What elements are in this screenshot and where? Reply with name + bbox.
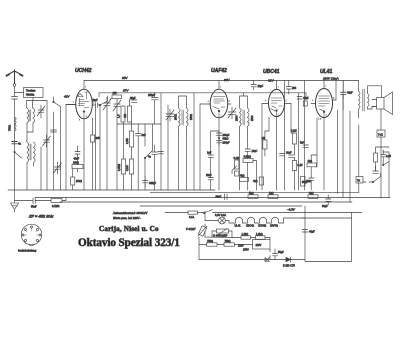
wire column x161	[160, 93, 162, 190]
wire	[27, 123, 33, 140]
svg-text:250Ω: 250Ω	[190, 114, 193, 120]
svg-text:150V: 150V	[243, 249, 249, 252]
pin digits UAF42	[208, 87, 231, 118]
pin digits UBC41	[265, 88, 288, 117]
wire column x107	[106, 112, 108, 190]
transistor Q1 tube UL41	[316, 89, 333, 118]
antenna	[6, 70, 23, 84]
wire	[380, 137, 382, 198]
switch TA a	[383, 162, 390, 166]
wire AVC line	[37, 198, 67, 201]
switch S1b	[99, 96, 107, 110]
svg-text:Werte gem. bei 220V~: Werte gem. bei 220V~	[113, 216, 141, 220]
wire tuner top	[27, 101, 48, 109]
trimmer IF2	[228, 107, 236, 119]
capacitor 25nF	[206, 174, 214, 180]
output transformer secondary	[368, 91, 370, 109]
VDR resistor	[198, 226, 207, 236]
svg-text:0,1M: 0,1M	[234, 157, 240, 160]
resistor 4k horizontal	[240, 175, 249, 182]
capacitor 22pF top	[251, 81, 264, 91]
volume pot 0.1M	[232, 157, 239, 176]
wire psu right loop	[291, 213, 352, 262]
svg-text:63kΩ: 63kΩ	[223, 138, 229, 141]
loudspeaker	[372, 92, 393, 115]
svg-text:250Ω: 250Ω	[175, 114, 178, 120]
svg-text:40μF: 40μF	[309, 231, 315, 234]
svg-text:TA: TA	[357, 180, 360, 183]
svg-text:20kΩ: 20kΩ	[76, 180, 82, 183]
svg-text:190V 23mA: 190V 23mA	[323, 77, 339, 81]
rectifier diode	[265, 258, 270, 262]
wire column x92.5	[92, 118, 94, 190]
resistor 0.05M vertical	[118, 159, 126, 174]
svg-text:6,3V 0,3A: 6,3V 0,3A	[215, 214, 226, 217]
wire	[15, 92, 24, 94]
wire bus bottom L1b	[150, 191, 359, 193]
svg-text:1nF: 1nF	[207, 152, 212, 155]
output transformer core	[363, 89, 364, 111]
svg-text:20kΩ: 20kΩ	[73, 162, 79, 165]
svg-text:Sockelschaltung: Sockelschaltung	[18, 250, 37, 253]
wire mains feed	[165, 212, 188, 214]
svg-text:40nF: 40nF	[74, 158, 80, 161]
wire heater entry	[205, 213, 219, 221]
trimmer IF1	[166, 109, 174, 121]
wire	[27, 147, 41, 190]
wire column x337.5	[337, 110, 339, 194]
svg-text:30μF: 30μF	[322, 205, 328, 208]
svg-text:50μF: 50μF	[302, 181, 308, 184]
wire column x123.5	[123, 122, 125, 190]
adjustable resistor	[217, 229, 229, 236]
svg-text:F-31M7: F-31M7	[186, 227, 196, 231]
wire rectifier out	[270, 259, 290, 261]
svg-text:110V: 110V	[238, 245, 244, 248]
wire 87V drop	[99, 93, 306, 97]
wire	[14, 86, 16, 96]
svg-text:UCH42: UCH42	[75, 68, 92, 74]
svg-text:45pF: 45pF	[303, 97, 309, 100]
svg-text:UBC41: UBC41	[263, 69, 280, 75]
trimmer cap C2	[43, 135, 51, 147]
ground lower-left	[15, 200, 34, 202]
wire column x194	[193, 93, 195, 190]
wire bottom loop	[199, 245, 270, 260]
capacitor 45pF	[297, 97, 309, 101]
coil L1 pair	[27, 108, 35, 123]
IF transformer T1 coil a	[175, 104, 181, 131]
svg-text:Trocken-: Trocken-	[26, 90, 36, 93]
svg-text:50μF: 50μF	[278, 251, 284, 254]
svg-text:68nF: 68nF	[216, 196, 222, 199]
svg-text:1,2kΩ: 1,2kΩ	[256, 233, 263, 236]
svg-text:5nF: 5nF	[300, 142, 305, 145]
svg-text:750Ω: 750Ω	[207, 240, 213, 243]
capacitor 280pF uaf	[217, 141, 231, 145]
wire bus bottom L2	[35, 197, 390, 199]
wire column x168	[167, 105, 169, 190]
capacitor 25nF pair	[280, 154, 285, 156]
capacitor 200pF uaf	[217, 133, 231, 141]
wire heater chain	[225, 218, 351, 223]
wire column x219 mid	[211, 131, 219, 145]
svg-text:0,1A: 0,1A	[189, 216, 194, 219]
resistor R2k	[74, 152, 81, 161]
resistor R antenna	[9, 117, 17, 131]
svg-text:2500: 2500	[236, 115, 239, 121]
wire column x298	[298, 93, 300, 190]
resistor speaker field	[377, 130, 385, 137]
svg-text:40pF: 40pF	[347, 92, 353, 95]
svg-text:325pF: 325pF	[149, 182, 157, 185]
wire column x95.5	[95, 108, 97, 191]
wire column x269	[265, 117, 269, 156]
tube UAF42	[210, 89, 228, 118]
svg-text:50pF: 50pF	[92, 99, 98, 102]
wire bus bottom L1	[8, 189, 215, 191]
svg-text:4kΩ: 4kΩ	[240, 175, 245, 178]
svg-text:5kΩ: 5kΩ	[249, 192, 254, 195]
resistor 150 on 87V line	[112, 92, 122, 99]
svg-text:1,0: 1,0	[118, 114, 121, 118]
resistor right top	[374, 147, 378, 171]
wire column x284	[284, 81, 286, 191]
switch S2	[144, 146, 152, 163]
svg-text:50nF: 50nF	[31, 206, 37, 209]
wire bus bottom L4	[140, 205, 302, 207]
resistor 4k ubc cathode	[253, 177, 264, 185]
svg-text:Gleichr.: Gleichr.	[26, 94, 35, 97]
svg-text:750Ω: 750Ω	[9, 125, 12, 131]
fuse F1	[188, 211, 198, 219]
heater UL41	[235, 217, 243, 227]
switch S1a	[53, 97, 61, 112]
op-amp U1 tube UCH42	[76, 89, 93, 119]
resistor box A	[118, 106, 126, 122]
svg-text:750Ω: 750Ω	[225, 240, 231, 243]
capacitor 325pF	[143, 176, 157, 187]
wire column x131.5	[130, 99, 132, 190]
wire bus 85V top	[84, 80, 359, 82]
capacitor 40uF psu	[302, 230, 315, 234]
svg-text:0,1M: 0,1M	[291, 130, 297, 133]
phono socket TA	[356, 177, 363, 184]
resistor 5k on bus	[248, 192, 258, 198]
svg-text:0,05M: 0,05M	[118, 164, 121, 171]
switch mains	[198, 210, 363, 214]
resistor 0.1M	[51, 199, 62, 209]
svg-text:8nF: 8nF	[142, 134, 147, 137]
capacitor 250pF ubc top	[286, 81, 296, 95]
node joins	[26, 140, 29, 142]
wire column x152.5	[153, 104, 155, 190]
capacitor 68nF on bus	[216, 194, 228, 200]
wire transformer top	[359, 81, 382, 119]
box ferrite antenna	[24, 88, 44, 101]
pin digits UL41	[312, 87, 335, 122]
voltage tap box	[238, 240, 270, 252]
svg-text:15nF: 15nF	[252, 150, 258, 153]
tuning gang C var 2	[113, 99, 121, 113]
capacitor 250pF	[147, 93, 158, 105]
wire det	[248, 156, 257, 190]
wire column x53.5	[53, 112, 55, 190]
heater UBC41	[246, 217, 255, 227]
svg-text:1kΩ: 1kΩ	[269, 192, 274, 195]
capacitor right	[381, 150, 391, 161]
svg-text:1,2kΩ: 1,2kΩ	[242, 233, 249, 236]
IF transformer T1 coil b	[182, 104, 193, 131]
capacitor 1nF	[207, 152, 214, 158]
resistor 0.1M vertical	[126, 159, 134, 174]
capacitor antenna series	[12, 97, 22, 191]
resistor 1M vertical	[262, 137, 268, 149]
svg-text:UL41: UL41	[320, 69, 332, 75]
diode arrow out	[283, 257, 295, 268]
wire column x350	[349, 111, 351, 202]
node dot	[218, 137, 219, 138]
resistor 4k on bus	[308, 192, 318, 198]
wire column x358.8	[358, 125, 360, 177]
IF transformer T2 coil a	[236, 103, 242, 131]
resistor 0.25M ubc	[292, 161, 303, 171]
wire column x304.5	[304, 81, 306, 191]
wire column x117	[116, 113, 118, 190]
wire column x100	[99, 110, 101, 190]
wire column x66	[65, 105, 67, 191]
resistor 1k ul	[307, 160, 317, 167]
svg-text:25nF: 25nF	[206, 174, 212, 177]
svg-text:UCH42: UCH42	[258, 225, 267, 228]
capacitor 50uF psu	[273, 249, 285, 260]
node line y124	[117, 123, 161, 125]
wire right edge	[359, 147, 389, 198]
svg-text:0,2M: 0,2M	[126, 138, 129, 144]
pin digits UCH42	[73, 87, 96, 122]
svg-text:250pF: 250pF	[147, 94, 156, 97]
svg-text:220V: 220V	[256, 244, 262, 247]
svg-text:450: 450	[124, 113, 127, 118]
capacitor 10nF ubc	[286, 152, 294, 158]
svg-text:1M: 1M	[262, 137, 265, 140]
svg-text:0,1MΩ: 0,1MΩ	[52, 205, 60, 208]
tube socket diagram	[21, 224, 42, 246]
svg-text:UL41: UL41	[235, 225, 242, 228]
capacitor 5nF ul grid	[300, 142, 309, 148]
capacitor C3	[51, 130, 57, 132]
svg-text:25pF: 25pF	[130, 97, 136, 100]
capacitor 50pF coupling	[92, 99, 100, 108]
wire speaker down	[380, 109, 382, 130]
svg-text:UAF42: UAF42	[211, 68, 227, 74]
resistor 1.2k a	[241, 233, 251, 239]
tube UBC41	[269, 89, 285, 116]
wires power net	[199, 211, 270, 252]
capacitor right2	[373, 171, 379, 173]
coil L2 pair	[27, 142, 35, 163]
UAF42 pin wires	[200, 81, 231, 191]
resistor 0.2M vertical	[126, 131, 134, 147]
trimmer cap C2b	[54, 162, 62, 174]
wire bus 87V	[99, 92, 306, 94]
svg-text:ZF = 452 kHz: ZF = 452 kHz	[28, 214, 53, 219]
capacitor 30uF on bus	[322, 195, 331, 208]
tuning gang C var 1	[103, 97, 112, 112]
capacitor 15nF	[245, 141, 258, 156]
wire column x210.7	[210, 145, 212, 190]
resistor 0.5M	[243, 156, 253, 163]
wire column x262	[261, 104, 263, 191]
resistor 0.1M ubc	[291, 130, 297, 145]
trimmer cap C1	[37, 105, 45, 118]
svg-text:B 250 C75: B 250 C75	[283, 265, 295, 268]
resistor 1k on bus	[268, 192, 278, 198]
switch TA b	[372, 173, 380, 182]
svg-text:0,5MΩ: 0,5MΩ	[244, 156, 252, 159]
wire anode UL41	[336, 81, 343, 111]
wire x72	[73, 146, 78, 190]
svg-text:Carija, Nisel u. Co: Carija, Nisel u. Co	[99, 225, 159, 233]
output transformer primary	[359, 91, 361, 113]
resistor 20k horizontal	[72, 162, 83, 169]
svg-text:4kΩ: 4kΩ	[309, 192, 314, 195]
resistor box B	[124, 106, 132, 122]
wire column x60	[60, 112, 62, 190]
svg-text:150: 150	[113, 92, 118, 95]
capacitor 100pF	[148, 152, 158, 159]
UBC41 pin wires	[262, 81, 291, 191]
capacitor 25pF	[130, 97, 137, 102]
UL41 pin wires	[311, 81, 336, 191]
svg-text:250: 250	[292, 87, 297, 90]
resistor 750b	[224, 240, 235, 246]
wire column x145	[144, 124, 146, 190]
wire column x291-294	[291, 104, 295, 191]
wire column x47	[46, 101, 48, 191]
svg-text:Außenwiderstand: 9000Ω/V: Außenwiderstand: 9000Ω/V	[112, 211, 148, 215]
wire ul cathode	[311, 118, 317, 190]
dial lamp	[215, 214, 226, 224]
wire bus bottom L3	[60, 201, 352, 203]
svg-text:UBC41: UBC41	[246, 225, 255, 228]
resistor 20k vertical	[71, 177, 82, 185]
resistor 1M right col	[301, 177, 312, 187]
resistor 1.2k b	[256, 233, 266, 239]
wire column x343	[342, 93, 344, 198]
IF transformer T2 coil b	[243, 103, 254, 131]
resistor 750a	[207, 240, 218, 246]
wire T2	[240, 93, 248, 190]
svg-text:–6,5V: –6,5V	[286, 208, 296, 212]
svg-text:7+Ω: 7+Ω	[378, 134, 383, 137]
capacitor 200pF mid	[158, 152, 164, 154]
ground left	[11, 190, 19, 212]
svg-text:UAF42: UAF42	[270, 225, 278, 228]
capacitor 50uF cathode	[302, 172, 314, 186]
UCH42 pin wires	[66, 81, 96, 191]
svg-text:22pF: 22pF	[258, 85, 264, 88]
svg-text:2500: 2500	[251, 115, 254, 121]
wire column x186.5	[186, 131, 188, 190]
svg-text:4kΩ: 4kΩ	[253, 180, 258, 183]
capacitor 50nF	[31, 198, 37, 209]
svg-text:10nF: 10nF	[286, 152, 292, 155]
wire psu top	[302, 206, 305, 223]
wire grid UCH42	[66, 104, 76, 106]
antenna terminal	[13, 84, 16, 87]
svg-text:Oktavio Spezial 323/1: Oktavio Spezial 323/1	[78, 237, 180, 249]
wire column x200	[199, 104, 201, 190]
resistor 245k	[90, 135, 100, 142]
svg-text:0,1M: 0,1M	[126, 165, 129, 171]
svg-text:280pF: 280pF	[223, 142, 231, 145]
svg-text:245: 245	[96, 137, 101, 140]
wire column x138	[137, 124, 139, 190]
capacitor 8nF	[136, 128, 147, 141]
resistor 1k right of ubc	[303, 101, 307, 106]
heater UCH42	[258, 217, 267, 227]
heater UAF42	[270, 217, 279, 227]
capacitor 40pF anode	[341, 81, 354, 100]
wire column x178.5	[179, 96, 187, 190]
